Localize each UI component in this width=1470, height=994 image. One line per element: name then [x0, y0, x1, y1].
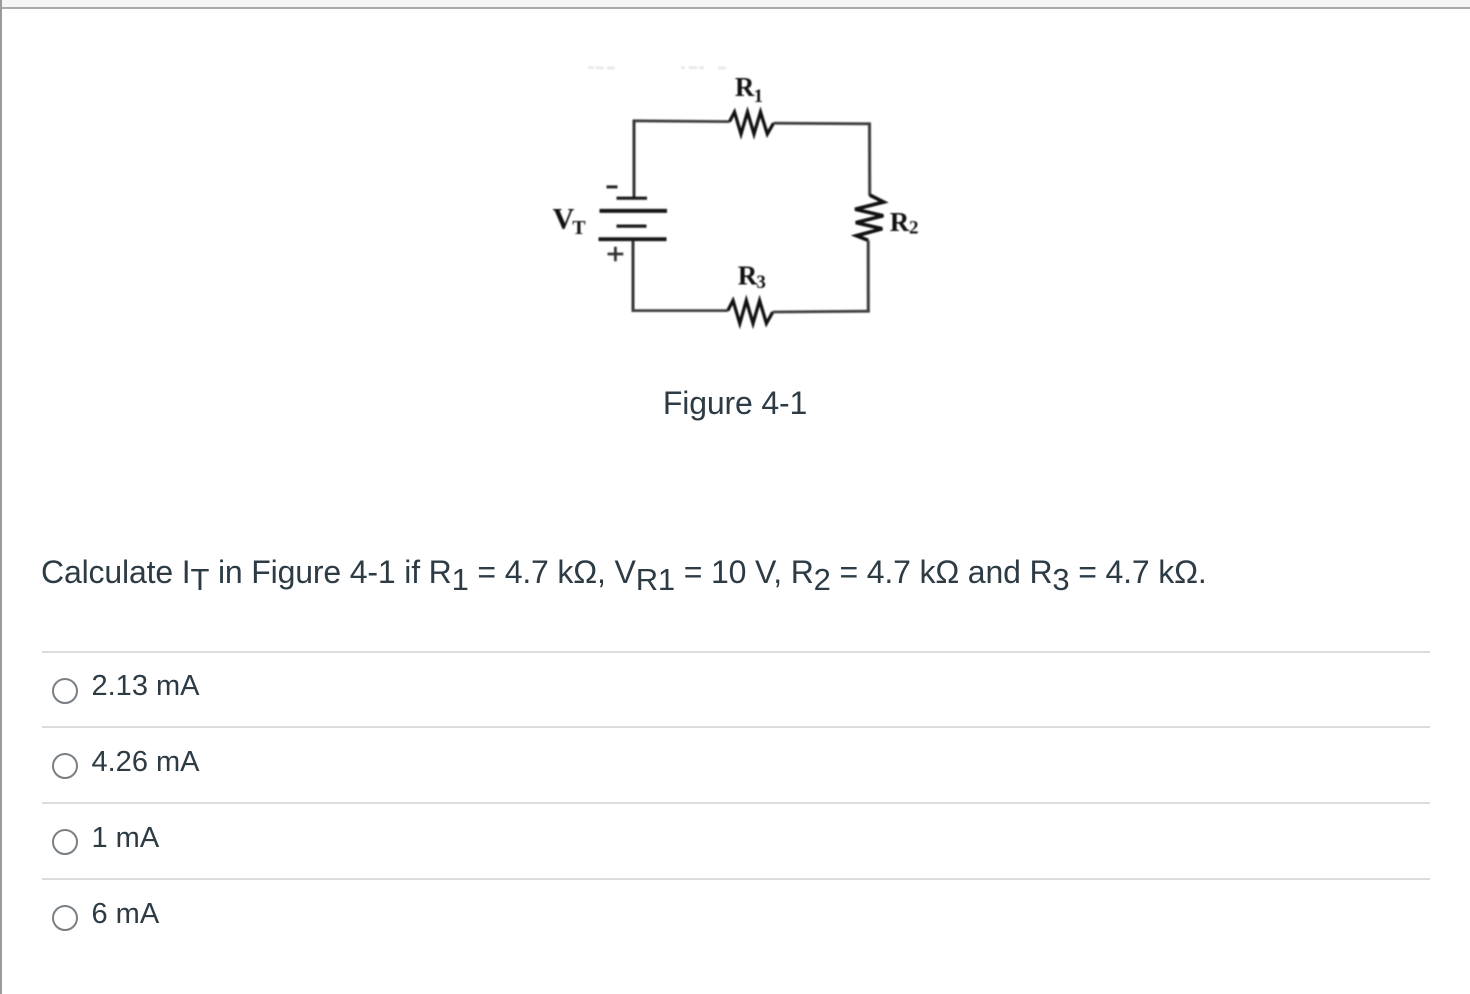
question text — [41, 554, 1207, 590]
scan artifact smudges — [588, 66, 726, 69]
option 2 — [52, 753, 78, 779]
wire: right vertical upper — [868, 122, 871, 195]
top gray strip (bottom of question header bar) — [2, 0, 1470, 7]
wire: right vertical lower — [867, 240, 870, 312]
circuit schematic figure — [540, 45, 940, 355]
svg-text:R: R — [738, 260, 758, 290]
battery VT plates — [617, 197, 648, 200]
header bottom border — [2, 7, 1470, 9]
wire: left vertical (battery negative lead) — [633, 120, 636, 198]
option 1 — [52, 678, 78, 704]
battery minus sign — [607, 185, 618, 188]
resistor R2 zigzag — [855, 195, 884, 240]
wire: top right segment — [774, 122, 871, 125]
resistor R1 zigzag — [730, 112, 774, 134]
figure caption — [0, 385, 1470, 421]
svg-text:2: 2 — [909, 218, 919, 239]
wire: left vertical lower (battery positive lead) — [632, 241, 635, 311]
resistor R3 zigzag — [728, 301, 773, 324]
wire: top left segment — [633, 119, 730, 123]
left panel border — [0, 0, 2, 994]
svg-text:R: R — [735, 72, 755, 102]
wire: bottom right segment — [773, 310, 870, 314]
svg-text:R: R — [890, 207, 910, 237]
option 3 — [52, 829, 78, 855]
svg-text:T: T — [572, 217, 586, 239]
svg-text:1: 1 — [754, 86, 764, 107]
wire: bottom left segment — [632, 309, 728, 312]
option 4 — [52, 905, 78, 931]
battery plus sign — [608, 247, 624, 261]
answer option dividers — [42, 651, 1430, 653]
svg-text:3: 3 — [756, 272, 766, 293]
